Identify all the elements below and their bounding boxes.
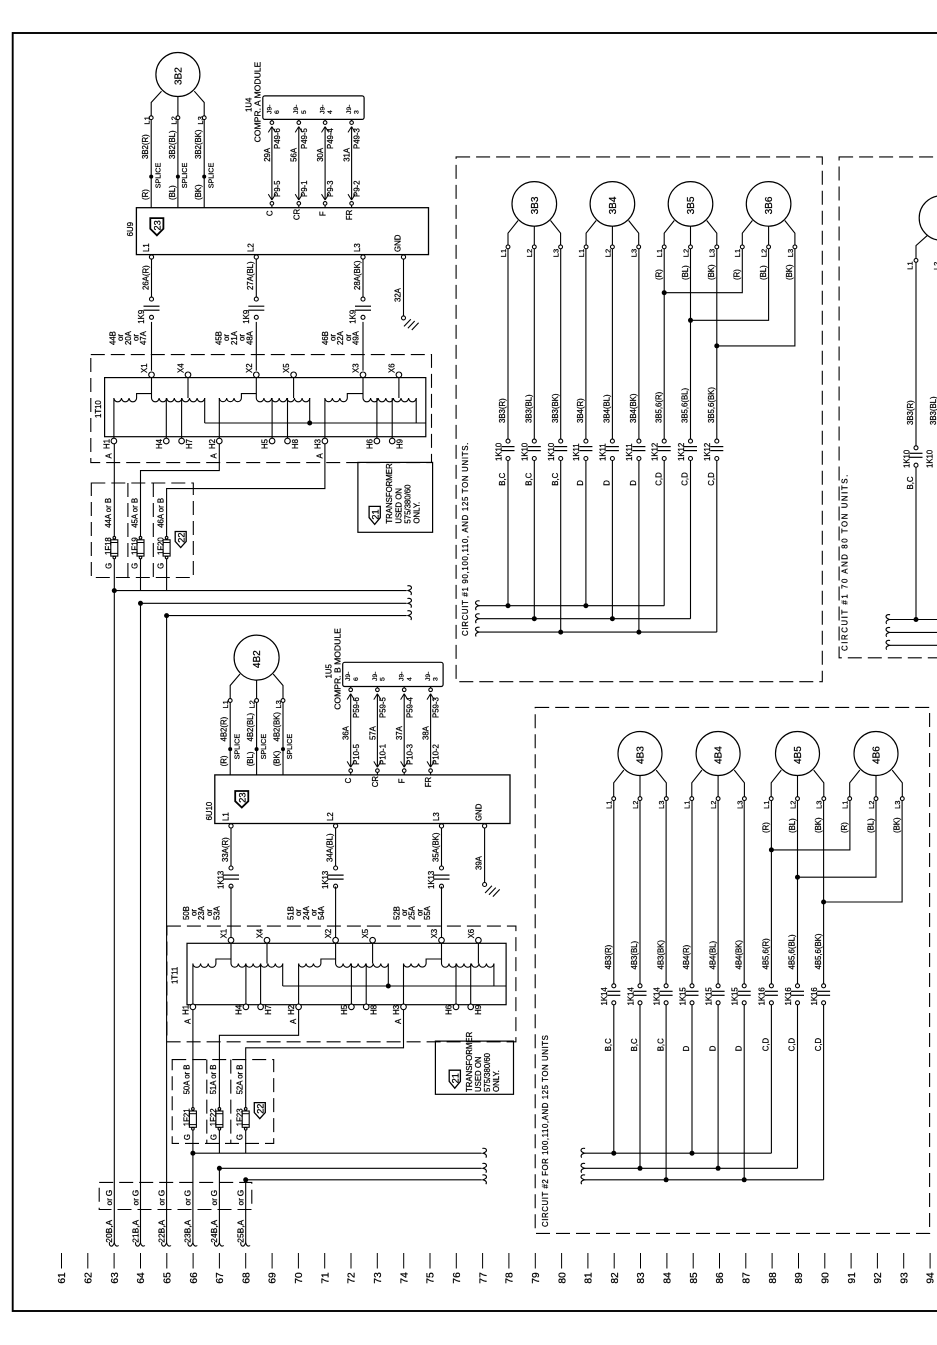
svg-text:or: or	[183, 1198, 193, 1206]
svg-text:SPLICE: SPLICE	[180, 163, 189, 189]
wire 3B3(BL) with contact 1K10	[521, 249, 541, 619]
svg-text:CR: CR	[292, 208, 301, 220]
jog 3B6 L2 to 3B5 wire (BL)	[688, 249, 769, 323]
svg-text:83: 83	[636, 1272, 647, 1284]
svg-text:(BK): (BK)	[273, 750, 282, 766]
svg-text:1K14: 1K14	[652, 987, 661, 1006]
wire 24B,A continues down	[218, 1168, 220, 1242]
6U9 terminal L2	[246, 243, 258, 259]
wire 3B3(BK) with contact 1K10	[547, 249, 567, 632]
svg-text:P59-5: P59-5	[379, 697, 388, 718]
wire 4B3(BL) with contact 1K14	[626, 801, 646, 1169]
svg-text:1K10: 1K10	[902, 449, 911, 468]
transformer 1T11 dashed enclosure	[167, 926, 516, 1042]
svg-text:(BL): (BL)	[681, 265, 690, 280]
svg-text:X4: X4	[256, 928, 265, 938]
1T10 X1 wire drop	[151, 378, 153, 398]
svg-text:X1: X1	[220, 929, 229, 939]
svg-text:L2: L2	[788, 801, 797, 809]
svg-text:64: 64	[136, 1272, 147, 1284]
labels (R)(BL)(BK) at 3B5	[655, 264, 717, 280]
svg-text:COMPR. B MODULE: COMPR. B MODULE	[333, 628, 343, 710]
disconnect 6U9 box	[126, 208, 428, 255]
svg-text:L1: L1	[143, 116, 152, 124]
svg-text:63: 63	[110, 1272, 121, 1284]
svg-text:C,D: C,D	[654, 472, 663, 486]
svg-text:56A: 56A	[290, 147, 299, 162]
wire 4B3(R) with contact 1K14	[600, 801, 620, 1154]
svg-text:76: 76	[452, 1272, 463, 1284]
svg-text:L3: L3	[815, 801, 824, 809]
svg-text:3B6: 3B6	[764, 196, 775, 214]
svg-text:5: 5	[301, 110, 308, 114]
1T11 winding phase 1	[193, 943, 283, 1004]
svg-text:FR: FR	[424, 777, 433, 788]
svg-text:23: 23	[238, 792, 248, 802]
svg-text:X3: X3	[430, 929, 439, 939]
svg-text:3B2: 3B2	[174, 67, 185, 85]
svg-text:27A(BL): 27A(BL)	[246, 261, 255, 290]
svg-text:CIRCUIT #2 FOR 100,110,AND 125: CIRCUIT #2 FOR 100,110,AND 125 TON UNITS	[541, 1035, 550, 1227]
label A at H1	[104, 453, 113, 459]
motor 4B3 leads	[605, 770, 669, 809]
wire 3B4(R) with contact 1K11	[572, 249, 592, 606]
svg-text:X5: X5	[282, 363, 291, 373]
svg-text:1T10: 1T10	[94, 400, 103, 418]
svg-text:4B6: 4B6	[872, 746, 883, 764]
wire 33A(R) from 6U10 to 1T11 with contact 1K13	[217, 828, 240, 938]
1T10 terminal X4	[177, 363, 191, 378]
svg-text:86: 86	[715, 1272, 726, 1284]
svg-text:91: 91	[847, 1272, 858, 1284]
svg-text:L2: L2	[169, 116, 178, 124]
svg-text:L3: L3	[552, 249, 561, 257]
svg-text:SPLICE: SPLICE	[153, 163, 162, 189]
svg-text:L3: L3	[196, 116, 205, 124]
svg-text:32A: 32A	[394, 287, 403, 302]
1T11 terminal X5	[361, 928, 375, 943]
svg-text:3B3(BL): 3B3(BL)	[929, 396, 937, 425]
wire 3B2(BK) with splice	[194, 120, 215, 208]
svg-text:D: D	[576, 480, 585, 486]
CIRCUIT 1 70-80 ton dashed box	[839, 157, 937, 658]
module 1U5 pin J9-6 and wire 36A to 6U10 C	[342, 672, 361, 784]
1T10 terminal X3	[352, 363, 366, 377]
svg-text:CR: CR	[371, 776, 380, 788]
wire 27A(BL) from 6U9 to 1T10 with contact 1K9	[242, 259, 264, 371]
jog 3B6 L3 to 3B5 wire (BK)	[714, 249, 795, 349]
svg-text:P9-3: P9-3	[326, 181, 335, 197]
svg-text:L2: L2	[248, 700, 257, 708]
svg-text:L1: L1	[762, 801, 771, 809]
bottom labels dashed box	[99, 1182, 252, 1209]
svg-text:3B2(BK): 3B2(BK)	[194, 129, 203, 159]
wire label 21B,A or G with continuation	[130, 1190, 145, 1246]
svg-text:J9-: J9-	[372, 672, 379, 681]
svg-text:X4: X4	[177, 363, 186, 373]
svg-text:L3: L3	[274, 700, 283, 708]
svg-text:SPLICE: SPLICE	[259, 734, 268, 760]
flag banner 23 in 6U9	[150, 218, 163, 235]
flag banner 21 (1T11 note)	[449, 1070, 460, 1088]
flag banner 22 (1T10 fuses)	[175, 532, 186, 548]
svg-text:1K10: 1K10	[494, 442, 503, 461]
svg-text:21: 21	[371, 509, 381, 519]
svg-text:37A: 37A	[395, 725, 404, 740]
svg-text:4B4: 4B4	[714, 746, 725, 764]
svg-text:or: or	[236, 1198, 246, 1206]
svg-text:21: 21	[451, 1073, 461, 1083]
svg-text:54A: 54A	[317, 905, 326, 920]
svg-text:H9: H9	[396, 439, 405, 449]
svg-text:F: F	[398, 778, 407, 783]
svg-text:34A(BL): 34A(BL)	[326, 833, 335, 862]
svg-text:21B,A: 21B,A	[130, 1219, 140, 1242]
1T11 winding phase 2	[299, 943, 389, 1004]
wire label 25B,A or G with continuation	[236, 1190, 251, 1246]
circuit 2 feed bus C	[243, 1175, 486, 1184]
note text transformer used on 575/380/60 only (1T10)	[385, 463, 422, 524]
svg-text:P59-4: P59-4	[405, 697, 414, 718]
svg-text:22: 22	[256, 1104, 266, 1114]
module 1U5 pin J9-3 and wire 38A to 6U10 FR	[422, 672, 441, 788]
svg-text:P49-5: P49-5	[300, 128, 309, 149]
svg-text:93: 93	[899, 1272, 910, 1284]
svg-text:(BL): (BL)	[866, 818, 875, 833]
svg-text:or: or	[104, 1198, 114, 1206]
svg-text:L3: L3	[353, 243, 362, 252]
svg-text:3B4(R): 3B4(R)	[576, 398, 585, 423]
fuse group dashed box (1T11)	[172, 1060, 274, 1144]
label A at 1T11 H1	[183, 1018, 192, 1024]
svg-text:P49-3: P49-3	[353, 128, 362, 149]
svg-text:4B5,6(BL): 4B5,6(BL)	[788, 934, 797, 970]
svg-text:D: D	[708, 1045, 717, 1051]
svg-text:H3: H3	[313, 439, 322, 449]
module 1U4 pin J9-6 and wire 29A to 6U9 C	[263, 105, 282, 217]
jog 4B6 L3 to 4B5 wire (BK)	[821, 801, 902, 905]
svg-text:G: G	[104, 1190, 114, 1197]
svg-text:575/380/60: 575/380/60	[403, 484, 412, 524]
svg-text:H5: H5	[340, 1004, 349, 1015]
6U9 ground wire 32A	[394, 259, 404, 316]
svg-text:44A or B: 44A or B	[104, 498, 113, 528]
svg-text:or: or	[156, 1198, 166, 1206]
1T10 terminal H1	[102, 438, 116, 449]
svg-text:J9-: J9-	[293, 105, 300, 114]
motor 3B2 leads L1 L2 L3	[143, 91, 207, 124]
motor 3B3 (70/80) lead L1	[906, 235, 937, 270]
motor 3B3 (70/80) partial	[919, 196, 937, 241]
svg-text:G: G	[236, 1190, 246, 1197]
svg-text:H7: H7	[185, 439, 194, 449]
svg-text:P59-6: P59-6	[352, 697, 361, 718]
disconnect 6U10 box	[205, 775, 510, 824]
svg-text:61: 61	[57, 1272, 68, 1284]
svg-text:26A(R): 26A(R)	[141, 265, 150, 290]
70/80 bus C	[886, 640, 937, 649]
svg-text:(R): (R)	[220, 755, 229, 766]
1T10 X2 wire drop	[255, 378, 257, 398]
motor 4B6 leads	[841, 770, 905, 809]
svg-text:3B2(R): 3B2(R)	[141, 134, 150, 159]
1T10 terminal X5	[282, 363, 296, 378]
label A at H3	[315, 453, 324, 459]
svg-text:B,C: B,C	[630, 1038, 639, 1051]
wire 23B,A continues down	[192, 1153, 194, 1243]
svg-text:J9-: J9-	[346, 105, 353, 114]
wire 3B4(BL) with contact 1K11	[599, 249, 619, 619]
svg-text:1K16: 1K16	[810, 987, 819, 1005]
svg-text:COMPR. A MODULE: COMPR. A MODULE	[253, 61, 263, 142]
1T10 terminal X2	[245, 363, 259, 377]
svg-text:L1: L1	[499, 249, 508, 257]
svg-text:P9-5: P9-5	[273, 180, 282, 197]
svg-text:28A(BK): 28A(BK)	[353, 260, 362, 290]
wire 25B,A continues down	[245, 1180, 247, 1243]
svg-text:(BK): (BK)	[892, 817, 901, 833]
svg-text:ONLY.: ONLY.	[413, 502, 422, 524]
svg-text:1K11: 1K11	[625, 443, 634, 461]
labels (R)(BL)(BK) at 4B6	[840, 817, 901, 833]
svg-text:X5: X5	[361, 928, 370, 938]
1T10 winding phase 1	[114, 378, 205, 439]
1T11 terminal H4	[234, 1004, 248, 1015]
wire 4B4(BK) with contact 1K15	[731, 801, 751, 1180]
svg-text:H1: H1	[102, 439, 111, 449]
svg-text:CIRCUIT #1 90,100,110, AND 125: CIRCUIT #1 90,100,110, AND 125 TON UNITS…	[461, 442, 470, 636]
1T11 X1 wire drop	[230, 943, 232, 963]
svg-text:L3: L3	[630, 249, 639, 257]
svg-text:3B3: 3B3	[530, 196, 541, 214]
svg-text:F: F	[319, 211, 328, 216]
svg-text:79: 79	[531, 1272, 542, 1284]
svg-text:4B4(BK): 4B4(BK)	[734, 940, 743, 970]
svg-text:1K9: 1K9	[349, 310, 358, 324]
module 1U4 COMPR. A MODULE box	[245, 61, 364, 142]
svg-text:33A(R): 33A(R)	[221, 837, 230, 862]
svg-text:4B2: 4B2	[252, 650, 263, 668]
svg-text:L3: L3	[432, 812, 441, 821]
svg-text:L2: L2	[932, 262, 937, 270]
svg-text:(R): (R)	[840, 822, 849, 833]
1T10 terminal H3	[313, 438, 327, 449]
svg-text:B,C: B,C	[498, 472, 507, 485]
svg-text:49A: 49A	[352, 330, 361, 345]
svg-text:C,D: C,D	[762, 1038, 771, 1052]
svg-text:TRANSFORMER: TRANSFORMER	[465, 1031, 474, 1092]
svg-text:G: G	[183, 1134, 192, 1140]
svg-text:D: D	[629, 480, 638, 486]
fuse 1F20 46A or B	[156, 498, 170, 591]
wire 1T11 H2 jog to fuse 1F22	[219, 1010, 298, 1108]
svg-text:3B5,6(BK): 3B5,6(BK)	[707, 387, 716, 423]
wire H3 jog to fuse 1F20	[167, 444, 325, 537]
svg-text:4B5,6(R): 4B5,6(R)	[762, 938, 771, 970]
motor 4B5	[776, 732, 820, 776]
wire 3B5,6(BK) with contact 1K12	[703, 249, 723, 632]
svg-text:45A or B: 45A or B	[130, 498, 139, 528]
jog 4B6 L1 to 4B5 wire (R)	[769, 801, 850, 853]
svg-text:31A: 31A	[343, 147, 352, 162]
circuit 2 bus C with continuation	[581, 1175, 824, 1184]
6U10 terminal L1	[221, 812, 233, 828]
svg-text:SPLICE: SPLICE	[206, 163, 215, 189]
svg-text:(BK): (BK)	[194, 184, 203, 200]
svg-text:H9: H9	[474, 1005, 483, 1015]
1T11 terminal H6	[445, 1004, 459, 1015]
label A at H2	[210, 453, 219, 459]
svg-text:92: 92	[873, 1272, 884, 1284]
circuit 1 bus B with continuation	[476, 614, 691, 623]
svg-text:C,D: C,D	[681, 472, 690, 486]
svg-text:H1: H1	[181, 1005, 190, 1015]
svg-text:USED ON: USED ON	[395, 488, 404, 524]
svg-text:55A: 55A	[423, 905, 432, 920]
svg-text:30A: 30A	[316, 147, 325, 162]
module 1U5 pin J9-4 and wire 37A to 6U10 F	[395, 672, 414, 784]
label A at 1T11 H2	[289, 1018, 298, 1024]
svg-text:71: 71	[320, 1272, 331, 1284]
svg-text:4B2(R): 4B2(R)	[220, 716, 229, 741]
fuse 1F21 50A or B	[183, 1064, 197, 1153]
transformer 1T10 dashed enclosure	[91, 355, 432, 463]
wire 1T11 H1 to fuse 1F21	[192, 1010, 194, 1108]
label 46B or 22A or 49A	[321, 330, 361, 345]
svg-text:X6: X6	[387, 363, 396, 373]
circuit 2 bus A with continuation	[581, 1148, 771, 1157]
svg-text:3B3(R): 3B3(R)	[906, 400, 915, 425]
transformer 1T10 winding box	[105, 378, 426, 437]
svg-text:A: A	[210, 453, 219, 459]
svg-text:4B5: 4B5	[793, 746, 804, 764]
svg-text:L1: L1	[906, 261, 915, 269]
svg-text:68: 68	[241, 1272, 252, 1284]
svg-text:L2: L2	[603, 249, 612, 257]
svg-text:J9-: J9-	[266, 105, 273, 114]
svg-text:1K14: 1K14	[626, 987, 635, 1006]
svg-text:P59-3: P59-3	[432, 697, 441, 718]
svg-text:73: 73	[373, 1272, 384, 1284]
wire 4B5,6(BK) with contact 1K16	[810, 801, 830, 1180]
1T11 terminal H5	[340, 1004, 354, 1015]
wire 34A(BL) from 6U10 to 1T11 with contact 1K13	[321, 828, 344, 938]
svg-text:L1: L1	[605, 801, 614, 809]
svg-text:4B4(R): 4B4(R)	[682, 944, 691, 969]
motor 3B4 leads	[577, 221, 641, 258]
svg-text:G: G	[209, 1134, 218, 1140]
1T11 X3 wire drop	[441, 943, 443, 963]
6U10 terminal L3	[432, 812, 444, 828]
wire 1T11 H3 jog to fuse 1F23	[246, 1010, 404, 1108]
svg-text:GND: GND	[394, 234, 403, 252]
svg-text:88: 88	[768, 1272, 779, 1284]
svg-text:3B5,6(R): 3B5,6(R)	[654, 391, 663, 423]
svg-text:A: A	[183, 1018, 192, 1024]
svg-text:X2: X2	[324, 929, 333, 939]
svg-text:84: 84	[663, 1272, 674, 1284]
svg-text:L2: L2	[681, 249, 690, 257]
svg-text:FR: FR	[345, 209, 354, 220]
svg-text:52A or B: 52A or B	[236, 1064, 245, 1094]
1T10 X3 wire drop	[362, 378, 364, 398]
svg-text:3B4(BK): 3B4(BK)	[629, 393, 638, 423]
svg-text:L2: L2	[760, 249, 769, 257]
svg-text:4B4(BL): 4B4(BL)	[708, 940, 717, 969]
svg-text:(R): (R)	[733, 269, 742, 280]
circuit 2 bus B with continuation	[581, 1163, 797, 1172]
motor 3B6	[746, 182, 791, 227]
circuit 2 feed bus A	[190, 1148, 486, 1157]
wire label 23B,A or G with continuation	[183, 1190, 198, 1246]
ladder line numbers 61-94 with ticks	[57, 1253, 937, 1284]
wire 22B,A continues down page	[166, 616, 168, 1243]
svg-text:P9-2: P9-2	[353, 181, 362, 197]
svg-text:L2: L2	[246, 243, 255, 252]
svg-text:H7: H7	[264, 1005, 273, 1015]
svg-text:L3: L3	[786, 249, 795, 257]
svg-text:78: 78	[505, 1272, 516, 1284]
svg-text:72: 72	[347, 1272, 358, 1284]
wire 3B2(BL) with splice	[168, 120, 189, 208]
svg-text:35A(BK): 35A(BK)	[431, 832, 440, 862]
svg-text:X2: X2	[245, 363, 254, 373]
1T10 winding phase 2	[219, 378, 309, 439]
motor 3B3 leads	[499, 221, 563, 258]
1T11 terminal X3	[430, 929, 444, 943]
svg-text:4B3(R): 4B3(R)	[604, 944, 613, 969]
svg-text:H8: H8	[370, 1005, 379, 1015]
svg-text:70: 70	[294, 1272, 305, 1284]
svg-text:G: G	[104, 563, 113, 569]
svg-text:L2: L2	[525, 249, 534, 257]
svg-text:B,C: B,C	[604, 1038, 613, 1051]
svg-text:H6: H6	[445, 1005, 454, 1015]
1T10 terminal H7	[179, 438, 194, 449]
svg-text:H6: H6	[365, 439, 374, 449]
svg-text:USED ON: USED ON	[474, 1056, 483, 1092]
circuit 1 feed bus B	[138, 598, 411, 607]
svg-text:G: G	[209, 1190, 219, 1197]
svg-text:L1: L1	[733, 249, 742, 257]
svg-text:6: 6	[353, 677, 360, 681]
label A at 1T11 H3	[394, 1018, 403, 1024]
1T11 terminal H8	[363, 1004, 378, 1015]
1T10 terminal H9	[389, 438, 404, 449]
motor 4B2	[234, 635, 279, 680]
svg-text:94: 94	[926, 1272, 937, 1284]
svg-text:(BL): (BL)	[246, 751, 255, 766]
svg-text:23B,A: 23B,A	[183, 1219, 193, 1242]
6U9 terminal L3	[353, 243, 365, 259]
svg-text:1K9: 1K9	[137, 310, 146, 324]
svg-text:3B5: 3B5	[686, 196, 697, 214]
wire 3B5,6(BL) with contact 1K12	[677, 249, 697, 619]
svg-text:C: C	[344, 777, 353, 783]
svg-text:L2: L2	[867, 801, 876, 809]
svg-text:1K13: 1K13	[427, 871, 436, 889]
svg-text:L3: L3	[893, 801, 902, 809]
svg-text:69: 69	[268, 1272, 279, 1284]
1T10 secondary common bus	[205, 421, 426, 426]
wire 3B5,6(R) with contact 1K12	[651, 249, 671, 606]
1T11 terminal X1	[220, 929, 234, 943]
svg-text:L3: L3	[657, 801, 666, 809]
svg-text:L1: L1	[577, 249, 586, 257]
svg-text:80: 80	[557, 1272, 568, 1284]
svg-text:(BK): (BK)	[814, 817, 823, 833]
motor 3B5	[668, 182, 713, 227]
